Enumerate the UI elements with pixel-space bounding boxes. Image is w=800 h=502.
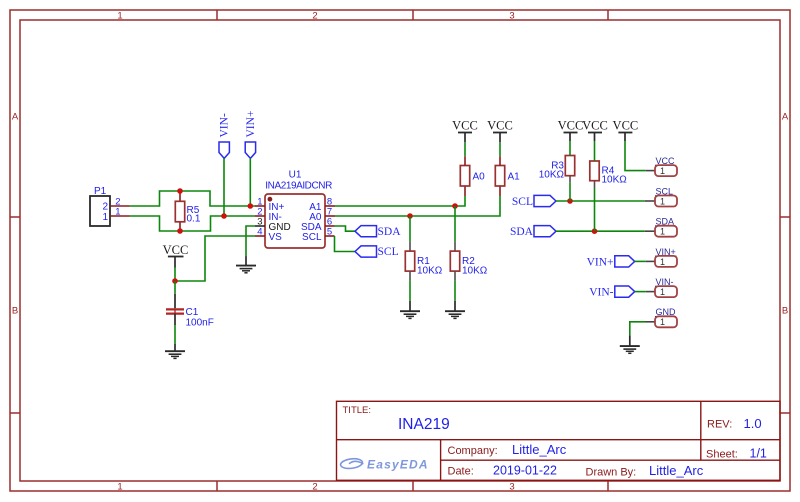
svg-text:10KΩ: 10KΩ [462, 266, 488, 277]
svg-text:Drawn By:: Drawn By: [586, 466, 637, 478]
svg-text:VIN-: VIN- [589, 287, 613, 299]
wire VIN- [635, 291, 646, 293]
EasyEDA logo [340, 458, 363, 470]
frame row ticks left [10, 217, 20, 413]
svg-text:1: 1 [660, 227, 665, 237]
junction VIN+ / IN+ [248, 203, 254, 209]
svg-text:VCC: VCC [163, 243, 189, 257]
svg-text:10KΩ: 10KΩ [417, 266, 443, 277]
wire R2 to A1 net [454, 206, 456, 242]
capacitor C1 100nF [166, 294, 214, 329]
pin header SDA [645, 217, 677, 237]
wire C1 to ground [174, 325, 176, 344]
pin header GND [646, 307, 678, 327]
wire P1.1 to R5 bottom / U1 IN- [130, 216, 256, 231]
svg-text:1/1: 1/1 [750, 447, 767, 461]
svg-text:Company:: Company: [448, 445, 498, 457]
pin header VCC [646, 156, 677, 176]
svg-text:EasyEDA: EasyEDA [367, 457, 429, 471]
svg-text:1: 1 [660, 196, 665, 206]
svg-text:1: 1 [660, 287, 665, 297]
svg-text:0.1: 0.1 [187, 213, 201, 224]
svg-text:5: 5 [327, 226, 332, 237]
junction VIN- / IN- [221, 213, 227, 219]
wire VIN+ [635, 260, 646, 262]
ground under R1 [400, 301, 420, 319]
wire U1 SCL pin to port [335, 236, 356, 252]
junction R5 top [177, 188, 183, 194]
netport SDA right [510, 226, 556, 239]
svg-text:VCC: VCC [452, 119, 478, 133]
junction A0 net / R1 [407, 213, 413, 219]
wire SCL net [556, 200, 645, 202]
U1 pin 2 IN- [255, 206, 282, 222]
ground under R2 [445, 301, 465, 319]
power flag VCC above A0 [452, 119, 478, 143]
P1 pin 1 [110, 207, 130, 218]
svg-text:1.0: 1.0 [744, 416, 762, 431]
svg-text:10KΩ: 10KΩ [602, 175, 628, 186]
svg-text:B: B [12, 306, 18, 317]
wire U1 A0 pin to resistor A1 [335, 196, 500, 216]
wire SDA net [556, 230, 645, 232]
svg-text:VS: VS [269, 232, 283, 243]
svg-text:REV:: REV: [707, 419, 732, 431]
wire VIN- to U1 IN- [223, 158, 225, 216]
wire R1 to ground [409, 280, 411, 301]
netport SCL at U1 [355, 246, 399, 258]
svg-text:INA219AIDCNR: INA219AIDCNR [265, 180, 332, 191]
svg-text:SDA: SDA [510, 226, 534, 238]
wire VIN+ to U1 IN+ [249, 158, 251, 206]
junction VCC / VS / C1 [172, 278, 178, 284]
U1 pin 5 SCL [302, 226, 334, 242]
ground right column [620, 335, 640, 353]
netport SCL right [512, 195, 556, 208]
U1 pin 3 GND [255, 216, 291, 232]
svg-text:2: 2 [312, 482, 317, 493]
svg-text:TITLE:: TITLE: [343, 405, 372, 416]
title block [337, 401, 781, 480]
svg-text:A0: A0 [473, 172, 486, 183]
svg-text:SDA: SDA [378, 226, 402, 238]
svg-text:VIN+: VIN+ [245, 111, 257, 138]
wire node to C1 [174, 281, 176, 294]
svg-text:SCL: SCL [378, 246, 399, 258]
ground under U1 pin 3 [236, 256, 256, 273]
pin header SCL [645, 186, 677, 206]
U1 pin 1 IN+ [255, 196, 285, 212]
power flag VCC above R4 [582, 119, 608, 141]
svg-text:1: 1 [660, 257, 665, 267]
U1 pin 7 A0 [309, 206, 335, 222]
op-amp U1 INA219AIDCNR [265, 170, 332, 249]
svg-text:B: B [782, 306, 788, 317]
power flag VCC above R3 [558, 119, 584, 141]
wire U1 SDA pin to port [335, 226, 356, 231]
svg-text:100nF: 100nF [186, 317, 214, 328]
power flag VCC above A1 [487, 119, 513, 143]
svg-text:Little_Arc: Little_Arc [649, 463, 704, 478]
svg-text:2019-01-22: 2019-01-22 [493, 464, 557, 478]
svg-text:1: 1 [660, 166, 665, 176]
svg-text:C1: C1 [186, 307, 199, 318]
svg-text:4: 4 [257, 226, 262, 237]
ground under C1 [165, 344, 185, 358]
wire VCC to pin header [625, 141, 646, 171]
resistor R3 10KΩ [539, 141, 575, 201]
svg-text:10KΩ: 10KΩ [539, 170, 565, 181]
svg-text:SCL: SCL [512, 196, 533, 208]
netport VIN+ right [587, 256, 635, 268]
U1 pin 6 SDA [301, 216, 335, 232]
resistor R1 10KΩ [405, 242, 442, 281]
netflag VIN- top [219, 113, 231, 158]
power flag VCC at C1 [163, 243, 189, 267]
power flag VCC right column [613, 119, 639, 141]
svg-text:1: 1 [117, 482, 122, 493]
wire U1 A1 pin to resistor A0 [335, 196, 465, 206]
wire A1 to VCC [499, 142, 501, 156]
svg-text:VCC: VCC [613, 119, 639, 133]
wire R2 to ground [454, 280, 456, 301]
svg-text:VCC: VCC [487, 119, 513, 133]
netflag VIN+ top [245, 111, 257, 159]
svg-text:A: A [782, 111, 789, 122]
svg-text:VIN+: VIN+ [587, 256, 614, 268]
pin header VIN+ [646, 247, 677, 267]
svg-text:2: 2 [312, 11, 317, 22]
resistor A0 [460, 156, 485, 196]
junction R5 bottom [177, 228, 183, 234]
U1 pin 8 A1 [309, 196, 335, 212]
svg-text:A: A [12, 111, 19, 122]
resistor R2 10KΩ [450, 242, 487, 281]
svg-text:A1: A1 [508, 172, 521, 183]
svg-text:INA219: INA219 [398, 416, 450, 433]
junction SCL / R3 [567, 198, 573, 204]
svg-text:3: 3 [509, 482, 514, 493]
svg-text:3: 3 [509, 11, 514, 22]
netport SDA at U1 [355, 226, 401, 238]
resistor R5 0.1 [175, 191, 201, 231]
wire A0 to VCC [464, 142, 466, 156]
wire U1 VS pin to VCC/C1 node [175, 236, 255, 281]
frame column ticks top [217, 10, 608, 20]
svg-text:1: 1 [660, 317, 665, 327]
svg-text:1: 1 [102, 212, 108, 223]
svg-text:1: 1 [117, 11, 122, 22]
U1 pin 4 VS [255, 226, 282, 242]
wire P1.2 to R5 top / U1 IN+ [130, 191, 256, 206]
wire U1 GND pin to ground [246, 226, 255, 256]
wire VCC to node [174, 268, 176, 282]
frame column ticks bottom [217, 481, 608, 491]
svg-text:VIN-: VIN- [219, 113, 231, 137]
wire GND header to ground [630, 322, 646, 336]
wire R1 to A0 net [409, 216, 411, 242]
junction SDA / R4 [592, 228, 598, 234]
svg-text:Sheet:: Sheet: [706, 448, 738, 460]
frame row ticks right [780, 217, 790, 413]
svg-text:SCL: SCL [302, 232, 322, 243]
resistor R4 10KΩ [590, 141, 627, 231]
pin header VIN- [646, 277, 677, 297]
svg-text:Date:: Date: [448, 466, 474, 478]
resistor A1 [495, 156, 520, 196]
svg-text:U1: U1 [289, 170, 302, 181]
P1 pin 2 [110, 196, 130, 207]
connector P1 [90, 186, 110, 226]
svg-text:VCC: VCC [558, 119, 584, 133]
svg-text:Little_Arc: Little_Arc [512, 442, 567, 457]
junction A1 net / R2 [452, 203, 458, 209]
svg-text:1: 1 [115, 207, 120, 218]
svg-text:VCC: VCC [582, 119, 608, 133]
netport VIN- right [589, 286, 634, 299]
